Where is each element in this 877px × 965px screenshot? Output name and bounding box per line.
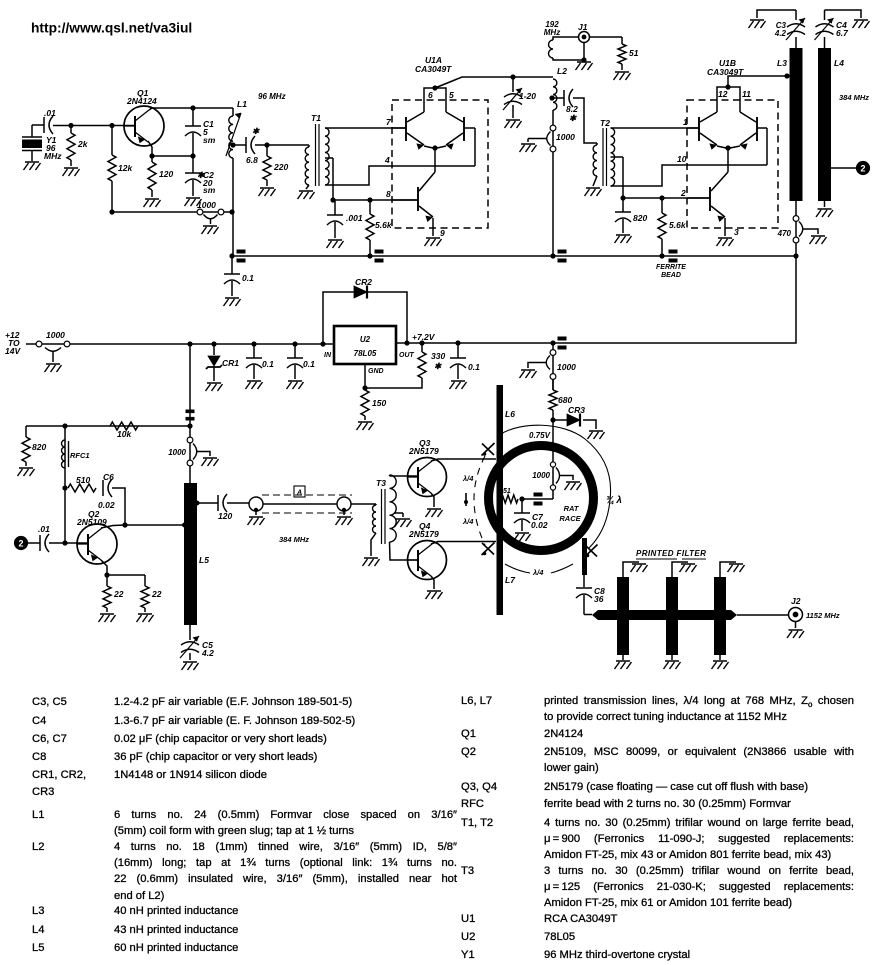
ground under .001 [327, 240, 344, 248]
ground 470 [810, 236, 827, 244]
variable capacitor C3 [795, 37, 797, 48]
ground 0.1 B [287, 381, 304, 389]
filter bar2 top ground [672, 562, 688, 577]
variable capacitor C4 [824, 37, 826, 48]
svg-text:2: 2 [680, 188, 686, 198]
J1 link coil [553, 37, 579, 40]
ground ring feedthrough [565, 482, 582, 490]
printed inductor L3 [790, 48, 803, 201]
svg-text:L1: L1 [237, 99, 247, 109]
wire T2 to pin1 [611, 127, 700, 129]
wire feedthrough to vertical [229, 209, 234, 214]
wire T2 bottom pin10 route [611, 165, 768, 186]
ground under 2k [63, 168, 80, 176]
node C1 top [190, 105, 195, 110]
wire J1 to 51 [590, 36, 623, 38]
svg-text:CR1: CR1 [222, 358, 239, 368]
rat race ring [489, 446, 594, 551]
transformer T2 primary [593, 145, 597, 176]
svg-text:6.8: 6.8 [246, 155, 258, 165]
node 51 C7 [519, 496, 524, 501]
Q2 emitter node [101, 560, 107, 575]
printed inductor L4 [818, 48, 831, 201]
node L2 tap [549, 95, 554, 100]
node Q2 supply branch [187, 341, 192, 346]
tap X mark upper [482, 443, 495, 456]
inductor RFC1 [64, 426, 66, 543]
svg-text:A: A [296, 490, 302, 497]
resistor 22 a [106, 575, 108, 586]
resistor 10k [110, 422, 138, 430]
wire pin8 [333, 199, 418, 201]
coax shield dashes [262, 495, 352, 513]
wire tap to 6.8 [233, 144, 246, 146]
ground 22 b [137, 614, 154, 622]
coax center conductor [263, 503, 337, 505]
transformer T2 secondary [611, 128, 615, 186]
svg-text:120: 120 [159, 169, 173, 179]
capacitor 820 T2 [622, 198, 624, 212]
svg-text:CR2: CR2 [355, 277, 372, 287]
node CR3 [550, 417, 555, 422]
wire T3 to Q4 [390, 542, 419, 560]
svg-text:51: 51 [503, 488, 511, 495]
ferrite bead Q2 branch [186, 410, 195, 414]
svg-text:CA3049T: CA3049T [415, 64, 452, 74]
svg-text:36: 36 [594, 594, 604, 604]
resistor 510 [68, 484, 96, 492]
diode CR3 [553, 419, 567, 421]
ground T3 primary [363, 558, 380, 566]
ground supply feedthrough [520, 370, 537, 378]
coax left terminal [249, 497, 263, 511]
node L4 output [822, 165, 827, 170]
svg-text:✱: ✱ [252, 126, 260, 136]
ground T1 primary [298, 191, 315, 199]
ground C4 [853, 20, 870, 28]
Q1 emitter wire [148, 141, 152, 156]
svg-text:.01: .01 [44, 108, 56, 118]
printed filter bar 3 [714, 577, 726, 655]
ferrite bead rail 1 [237, 250, 246, 254]
capacitor .001 [333, 199, 335, 201]
U2 GND stub [364, 364, 366, 388]
transformer T1 primary [308, 145, 310, 147]
diode CR2 bypass [323, 292, 354, 344]
filter bar2 bottom ground [671, 655, 673, 660]
resistor 330 [419, 340, 424, 345]
ground input feedthrough [45, 364, 62, 372]
ground Q2 feedthrough [202, 458, 219, 466]
svg-text:10: 10 [677, 154, 687, 164]
transistor Q1 2N4124 [124, 106, 164, 146]
svg-text:L2: L2 [557, 66, 567, 76]
connector J2 [789, 608, 803, 622]
capacitor 0.1 B [292, 341, 297, 346]
inductor L1 [232, 108, 234, 116]
svg-text:IN: IN [324, 352, 332, 359]
wire pin2 [623, 197, 710, 199]
ground coax left [248, 517, 265, 525]
svg-text:120: 120 [218, 511, 232, 521]
ground under 51 [614, 72, 631, 80]
ground CR1 [206, 383, 223, 391]
wire rail to 7.2V rail [762, 256, 796, 343]
svg-text:1152 MHz: 1152 MHz [806, 611, 840, 620]
U1A common emitter node [432, 145, 437, 150]
wire filter to J2 [737, 614, 788, 616]
svg-text:4: 4 [384, 155, 390, 165]
collector rail 96MHz [150, 107, 233, 109]
svg-text:MHz: MHz [544, 28, 560, 37]
capacitor 0.1 A [251, 341, 256, 346]
ground U1A pin9 [425, 238, 442, 246]
node base-12k [109, 123, 114, 128]
transistor Q2 2N5109 [77, 524, 117, 564]
node L5 120 tap [195, 501, 200, 506]
node 5.6k left [367, 197, 372, 202]
svg-text:J1: J1 [578, 22, 588, 32]
ferrite bead rail 2 [375, 250, 384, 254]
transistor Q3 2N5179 [408, 458, 447, 497]
label A box [294, 486, 305, 497]
svg-text:GND: GND [368, 368, 384, 375]
wire Y1 to cap [32, 124, 44, 126]
variable capacitor C5 [189, 625, 191, 640]
capacitor .01 input [43, 117, 45, 133]
node 7.2 rat race branch [550, 340, 555, 345]
svg-text:+7.2V: +7.2V [412, 332, 436, 342]
svg-text:2: 2 [860, 164, 865, 174]
svg-text:0.1: 0.1 [262, 359, 274, 369]
svg-text:✱: ✱ [434, 361, 442, 371]
U1B common emitter node [725, 145, 730, 150]
U1B collector bus [717, 87, 740, 112]
node U2 IN [320, 341, 325, 346]
capacitor 0.1 oscillator rail [231, 256, 233, 274]
svg-text:150: 150 [372, 398, 386, 408]
ground under C2 [185, 198, 202, 206]
svg-text:384 MHz: 384 MHz [839, 93, 869, 102]
ground J2 [795, 622, 797, 629]
ground C5 [182, 662, 199, 670]
wire T1 to pin7 [325, 127, 406, 129]
svg-text:220: 220 [273, 162, 288, 172]
ground under 220 [259, 188, 276, 196]
feedthrough capacitor 1000 Q2 [189, 426, 191, 484]
ground 0.1 oscillator [224, 298, 241, 306]
capacitor C8 [576, 587, 592, 589]
svg-text:1-20: 1-20 [519, 91, 536, 101]
svg-text:2N4124: 2N4124 [126, 96, 157, 106]
svg-text:3: 3 [734, 227, 739, 237]
ground T2 primary [585, 188, 602, 196]
T2 core [602, 128, 604, 186]
svg-text:0.1: 0.1 [468, 362, 480, 372]
svg-text:T2: T2 [600, 118, 610, 128]
Q1 collector to rail [149, 108, 152, 110]
feedthrough capacitor 1000 supply [552, 343, 554, 390]
svg-text:sm: sm [203, 135, 216, 145]
ground under 1-20 [505, 120, 522, 128]
wire cap to Q1 base [53, 125, 136, 127]
printed filter bar horizontal [592, 610, 737, 620]
svg-text:0.1: 0.1 [242, 273, 254, 283]
svg-text:22: 22 [113, 589, 124, 599]
svg-text:5: 5 [449, 90, 454, 100]
resistor 2k [70, 126, 72, 134]
resistor 5.6k left [369, 200, 371, 214]
transformer T3 primary [373, 505, 377, 533]
rat race output stub [582, 538, 587, 575]
svg-text:sm: sm [203, 185, 216, 195]
Q4 collector wire [431, 542, 496, 545]
svg-text:λ/4: λ/4 [462, 517, 474, 526]
capacitor C1 [192, 108, 194, 126]
svg-text:820: 820 [32, 442, 46, 452]
svg-text:1000: 1000 [197, 200, 216, 210]
T3 core [381, 489, 383, 544]
svg-text:7: 7 [386, 117, 392, 127]
wire emitter to 22b [107, 574, 145, 576]
svg-text:1000: 1000 [168, 448, 186, 457]
printed line L6 L7 bar [497, 385, 504, 615]
supply rail upper [232, 255, 796, 257]
svg-text:http://www.qsl.net/va3iul: http://www.qsl.net/va3iul [31, 21, 192, 36]
svg-text:2N5179: 2N5179 [408, 529, 439, 539]
resistor 51 [621, 37, 623, 44]
feedthrough capacitor 1000 L2 [552, 110, 554, 256]
resistor 120 [151, 156, 153, 162]
ground 0.1 A [246, 381, 263, 389]
resistor 150 [361, 390, 369, 416]
regulator U2 78L05 box [334, 326, 396, 364]
ferrite bead rail 3 [558, 250, 567, 254]
ground C7 [514, 533, 531, 541]
svg-text:1000: 1000 [532, 471, 550, 480]
svg-text:C6: C6 [103, 472, 114, 482]
svg-text:L5: L5 [199, 555, 209, 565]
T1 core [315, 124, 317, 186]
ground under L2 feedthrough [520, 144, 537, 152]
capacitor 6.8 [245, 137, 247, 153]
wire coax to T3 [351, 503, 376, 505]
arc 3/4 lambda [501, 425, 611, 548]
svg-text:470: 470 [777, 229, 792, 238]
capacitor 8.2 [563, 90, 565, 106]
diode CR1 zener [211, 341, 216, 346]
capacitor C2 [192, 156, 194, 173]
wire L2 tap to 8.2 [553, 97, 564, 99]
svg-text:T1: T1 [311, 113, 321, 123]
resistor 680 [552, 380, 554, 390]
svg-text:0.75V: 0.75V [529, 431, 551, 440]
wire 8.2 to T2 [573, 98, 597, 143]
svg-text:RFC1: RFC1 [70, 451, 90, 460]
node 2 output circled [857, 162, 870, 175]
svg-text:L6: L6 [505, 409, 515, 419]
resistor 5.6k right [661, 198, 663, 213]
wire 6.8 to T1 [255, 144, 309, 146]
ground under 120 [144, 199, 161, 207]
node .001 [330, 197, 335, 202]
ground 22 a [99, 614, 116, 622]
svg-text:14V: 14V [5, 346, 21, 356]
ground U1B pin3 [717, 238, 734, 246]
inductor L2 [553, 79, 557, 110]
feedthrough capacitor 1000 input [26, 343, 70, 345]
svg-text:U2: U2 [360, 335, 371, 344]
svg-text:820: 820 [633, 213, 647, 223]
transistor Q4 2N5179 [408, 541, 447, 580]
connector J1 [579, 32, 590, 43]
svg-text:λ/4: λ/4 [532, 568, 544, 577]
svg-text:CR3: CR3 [568, 405, 585, 415]
ground CR3 [588, 431, 605, 439]
Q3 emitter ground [431, 493, 434, 507]
svg-text:8: 8 [386, 189, 391, 199]
ground 150 [357, 422, 374, 430]
svg-text:4.2: 4.2 [201, 648, 214, 658]
crystal Y1 [31, 125, 33, 137]
feedthrough capacitor 1000 ring [550, 462, 555, 467]
printed inductor L5 [184, 483, 197, 625]
svg-text:10k: 10k [117, 429, 132, 439]
T1 tap to node [325, 157, 333, 159]
transformer T1 secondary [325, 128, 329, 185]
svg-text:¾ λ: ¾ λ [606, 495, 622, 506]
arc lambda/4 bottom [505, 564, 573, 573]
ground under L4 [824, 201, 826, 207]
printed filter bar 1 [617, 577, 629, 655]
svg-text:2N5179: 2N5179 [408, 446, 439, 456]
wire into ring [552, 420, 554, 499]
ground C3 [749, 20, 766, 28]
resistor 22 b [144, 575, 146, 586]
svg-text:96 MHz: 96 MHz [258, 92, 286, 101]
svg-text:12: 12 [718, 89, 728, 99]
ground 820 Q2 [18, 468, 35, 476]
svg-text:6.7: 6.7 [836, 28, 849, 38]
wire 120 to coax [227, 502, 249, 504]
U1B bottom transistor [709, 187, 711, 211]
T2 tap [611, 156, 624, 158]
resistor 220 [266, 145, 268, 156]
resistor 820 Q2 [25, 426, 27, 437]
ground under feedthrough [202, 226, 219, 234]
capacitor C7 [521, 499, 523, 513]
svg-text:5.6k: 5.6k [375, 220, 393, 230]
svg-text:OUT: OUT [399, 352, 415, 359]
node 820 T2 [620, 195, 625, 200]
svg-text:FERRITE: FERRITE [656, 264, 686, 271]
svg-text:22: 22 [151, 589, 162, 599]
ground 0.1 C [450, 381, 467, 389]
svg-text:✱: ✱ [569, 113, 577, 123]
svg-text:0.02: 0.02 [531, 520, 548, 530]
svg-text:1000: 1000 [557, 362, 576, 372]
feedthrough capacitor 1000 oscillator [197, 209, 203, 215]
ferrite bead rail 4 [669, 250, 678, 254]
filter bar3 top ground [720, 562, 736, 577]
svg-text:330: 330 [431, 351, 445, 361]
svg-text:λ/4: λ/4 [462, 474, 474, 483]
printed filter bar 2 [666, 577, 678, 655]
Q2 collector wire [101, 525, 125, 528]
ferrite bead ring [534, 493, 543, 497]
U1A collector bus [424, 88, 446, 112]
capacitor 0.1 C [455, 340, 460, 345]
capacitor 120 [217, 495, 219, 511]
svg-text:J2: J2 [791, 596, 801, 606]
wire C6 down to collector [112, 488, 125, 525]
ground coax right [336, 517, 353, 525]
wire to bead node [522, 498, 553, 500]
svg-text:51: 51 [629, 48, 639, 58]
power rail 12V [70, 343, 334, 345]
node 2 input circled [15, 537, 28, 550]
svg-text:1000: 1000 [46, 330, 65, 340]
svg-text:5.6k: 5.6k [669, 220, 687, 230]
capacitor C6 [102, 480, 104, 496]
svg-text:2k: 2k [77, 139, 89, 149]
ferrite bead 7.2 branch [558, 337, 567, 341]
op-amp U1B CA3049T box [687, 100, 778, 228]
svg-text:.01: .01 [38, 524, 50, 534]
svg-text:6: 6 [428, 90, 433, 100]
svg-text:T3: T3 [376, 478, 386, 488]
U1A left transistor [405, 117, 407, 141]
svg-text:.001: .001 [346, 213, 363, 223]
svg-text:BEAD: BEAD [661, 272, 681, 279]
wire U1B to L3 [728, 76, 789, 87]
resistor 12k [111, 126, 113, 156]
svg-text:0.1: 0.1 [303, 359, 315, 369]
U1B left transistor [698, 117, 700, 141]
wire U1A to L2 rail [435, 77, 553, 88]
svg-text:384 MHz: 384 MHz [279, 535, 309, 544]
svg-text:0.02: 0.02 [98, 500, 115, 510]
svg-text:2: 2 [18, 539, 23, 549]
svg-text:4.2: 4.2 [774, 29, 787, 38]
svg-text:2N5109: 2N5109 [76, 517, 107, 527]
wire .01 to Q2 base [49, 542, 88, 544]
svg-text:78L05: 78L05 [354, 349, 377, 358]
svg-text:680: 680 [558, 395, 572, 405]
svg-text:RACE: RACE [559, 514, 581, 523]
dashed arc left [474, 456, 485, 545]
wire Q2 top rail [26, 425, 190, 427]
U1A bottom transistor [417, 187, 419, 211]
filter bar1 top ground [623, 562, 639, 577]
svg-text:11: 11 [742, 89, 751, 99]
node C6 junction [62, 485, 67, 490]
svg-text:1000: 1000 [556, 132, 575, 142]
svg-text:510: 510 [76, 475, 90, 485]
node L5 collector tap [182, 523, 187, 528]
ground under Y1 [24, 162, 41, 170]
svg-text:PRINTED FILTER: PRINTED FILTER [636, 549, 706, 558]
Q3 collector wire [431, 459, 496, 461]
wire L1 vertical down [232, 158, 234, 256]
node 5.6k right [659, 195, 664, 200]
svg-text:RAT: RAT [564, 504, 580, 513]
node base-2k [68, 123, 73, 128]
Q4 emitter ground [431, 576, 434, 589]
U1A right transistor [463, 117, 465, 141]
wire T3 to Q3 [389, 475, 391, 476]
wire 12k to feedthrough [112, 211, 232, 213]
